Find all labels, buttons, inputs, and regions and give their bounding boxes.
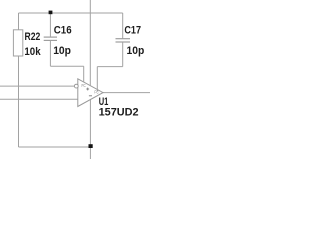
wire C17 bottom lead (122, 42, 124, 67)
wire op-amp V+ pin from top edge (89, 0, 91, 86)
capacitor C17 plates (116, 39, 131, 42)
wire op-amp FC pin 2 drop (96, 67, 98, 92)
wire C16 bottom lead (49, 40, 51, 66)
op-amp minus label V- pin (89, 95, 92, 97)
resistor R22 (13, 30, 22, 56)
op-amp plus label V+ pin (86, 88, 89, 91)
svg-text:C17: C17 (124, 24, 141, 36)
svg-text:FC: FC (94, 90, 99, 96)
wire inverting input (0, 85, 74, 87)
wire R22 bottom lead (18, 56, 20, 147)
svg-text:157UD2: 157UD2 (99, 106, 139, 118)
op-amp inverting input circle (74, 84, 78, 88)
wire op-amp V- pin to bottom rail (89, 99, 91, 159)
wire top rail (19, 12, 123, 14)
wire op-amp FC pin 1 drop (83, 66, 85, 82)
svg-text:R22: R22 (25, 31, 41, 43)
junction dot bottom rail / V- (89, 144, 93, 148)
op-amp U1 triangle (78, 79, 103, 107)
wire op-amp output (103, 92, 150, 94)
wire C16 to op-amp horizontal (50, 65, 83, 67)
svg-text:C16: C16 (54, 25, 72, 37)
wire bottom rail (19, 146, 91, 148)
svg-text:10p: 10p (127, 45, 145, 57)
capacitor C16 plates (44, 37, 57, 40)
wire C17 to op-amp horizontal (97, 66, 122, 68)
wire non-inverting input (0, 98, 78, 100)
wire C17 top lead (122, 13, 124, 39)
wire C16 top lead (49, 13, 51, 37)
wire R22 top lead (18, 13, 20, 30)
svg-text:FC: FC (82, 83, 87, 89)
svg-text:10p: 10p (53, 45, 71, 57)
junction dot top rail / C16 (49, 11, 53, 15)
svg-text:10k: 10k (24, 46, 41, 58)
